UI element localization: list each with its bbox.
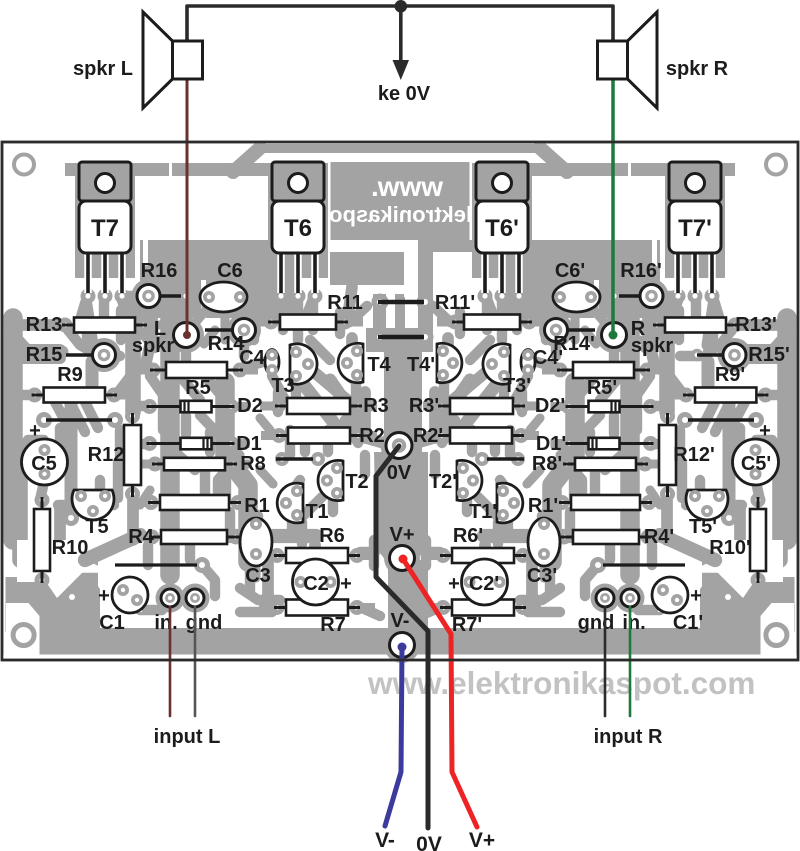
svg-text:T7': T7' bbox=[678, 215, 712, 242]
svg-text:T3': T3' bbox=[503, 375, 531, 397]
svg-text:D1': D1' bbox=[536, 433, 566, 455]
svg-text:R11': R11' bbox=[435, 292, 475, 314]
svg-text:D2': D2' bbox=[535, 395, 565, 417]
svg-text:R16: R16 bbox=[141, 260, 178, 282]
svg-text:in.: in. bbox=[622, 612, 645, 634]
svg-text:C5: C5 bbox=[31, 453, 57, 475]
svg-text:+: + bbox=[690, 585, 702, 607]
svg-text:gnd: gnd bbox=[578, 612, 615, 634]
svg-text:T1: T1 bbox=[305, 501, 328, 523]
svg-text:R3': R3' bbox=[409, 395, 439, 417]
svg-text:R8: R8 bbox=[240, 453, 266, 475]
svg-text:R4: R4 bbox=[128, 526, 154, 548]
svg-text:T1': T1' bbox=[469, 501, 497, 523]
svg-text:R8': R8' bbox=[532, 453, 562, 475]
svg-text:+: + bbox=[448, 573, 460, 595]
svg-text:spkr: spkr bbox=[132, 335, 174, 357]
svg-text:www.: www. bbox=[371, 171, 444, 202]
svg-text:T7: T7 bbox=[91, 215, 119, 242]
svg-text:C2': C2' bbox=[469, 573, 499, 595]
svg-text:R6: R6 bbox=[319, 525, 345, 547]
svg-text:T5: T5 bbox=[85, 516, 108, 538]
svg-text:C2: C2 bbox=[303, 573, 329, 595]
svg-text:D2: D2 bbox=[237, 395, 263, 417]
svg-text:R12': R12' bbox=[673, 444, 714, 466]
svg-text:C1: C1 bbox=[99, 612, 125, 634]
svg-text:V+: V+ bbox=[469, 829, 495, 851]
svg-text:T4: T4 bbox=[367, 354, 391, 376]
svg-text:ke 0V: ke 0V bbox=[378, 83, 431, 105]
svg-text:0V: 0V bbox=[387, 462, 412, 484]
svg-text:R3: R3 bbox=[363, 395, 389, 417]
svg-text:R16': R16' bbox=[620, 260, 661, 282]
svg-text:V+: V+ bbox=[389, 524, 414, 546]
svg-text:D1: D1 bbox=[236, 433, 262, 455]
svg-text:R9: R9 bbox=[57, 364, 83, 386]
svg-text:C1': C1' bbox=[673, 612, 703, 634]
svg-text:R15: R15 bbox=[26, 344, 63, 366]
svg-text:+: + bbox=[98, 585, 110, 607]
svg-text:R13': R13' bbox=[735, 314, 776, 336]
svg-text:R12: R12 bbox=[88, 444, 125, 466]
svg-text:R10: R10 bbox=[52, 537, 89, 559]
svg-text:C5': C5' bbox=[741, 453, 771, 475]
svg-text:R6': R6' bbox=[453, 525, 483, 547]
svg-text:R2': R2' bbox=[413, 425, 443, 447]
svg-text:C4': C4' bbox=[533, 347, 563, 369]
svg-text:spkr: spkr bbox=[631, 335, 673, 357]
svg-text:+: + bbox=[29, 420, 41, 442]
svg-text:R5': R5' bbox=[587, 377, 617, 399]
svg-text:input R: input R bbox=[594, 726, 663, 748]
svg-text:T2: T2 bbox=[345, 471, 368, 493]
svg-text:0V: 0V bbox=[416, 833, 442, 851]
svg-text:T2': T2' bbox=[429, 471, 457, 493]
svg-text:R4': R4' bbox=[644, 526, 674, 548]
svg-text:V-: V- bbox=[375, 829, 395, 851]
svg-text:T6': T6' bbox=[485, 215, 519, 242]
svg-text:V-: V- bbox=[391, 610, 410, 632]
svg-text:in.: in. bbox=[154, 612, 177, 634]
svg-text:R7': R7' bbox=[452, 614, 482, 636]
svg-text:input L: input L bbox=[154, 726, 221, 748]
svg-text:T5': T5' bbox=[689, 516, 717, 538]
svg-text:T4': T4' bbox=[407, 354, 435, 376]
svg-text:spkr R: spkr R bbox=[666, 58, 729, 80]
svg-text:R5: R5 bbox=[185, 377, 211, 399]
svg-text:gnd: gnd bbox=[186, 612, 223, 634]
svg-text:C6': C6' bbox=[555, 260, 585, 282]
svg-text:R11: R11 bbox=[327, 292, 363, 314]
svg-text:+: + bbox=[759, 420, 771, 442]
svg-text:elektronikaspot.: elektronikaspot. bbox=[316, 202, 485, 227]
svg-text:R1: R1 bbox=[244, 495, 270, 517]
svg-text:spkr L: spkr L bbox=[73, 58, 133, 80]
svg-text:R15': R15' bbox=[748, 344, 789, 366]
svg-text:www.elektronikaspot.com: www.elektronikaspot.com bbox=[367, 665, 755, 701]
svg-text:C6: C6 bbox=[217, 260, 243, 282]
svg-text:+: + bbox=[340, 573, 352, 595]
svg-text:R7: R7 bbox=[320, 614, 346, 636]
svg-text:C3': C3' bbox=[527, 565, 557, 587]
svg-text:R1': R1' bbox=[528, 495, 558, 517]
svg-text:R9': R9' bbox=[715, 364, 745, 386]
svg-text:C4: C4 bbox=[239, 347, 265, 369]
svg-text:T6: T6 bbox=[284, 215, 312, 242]
svg-text:T3: T3 bbox=[271, 375, 294, 397]
svg-text:R13: R13 bbox=[26, 314, 63, 336]
svg-text:R10': R10' bbox=[709, 537, 750, 559]
svg-text:C3: C3 bbox=[245, 565, 271, 587]
svg-text:R2: R2 bbox=[359, 425, 385, 447]
